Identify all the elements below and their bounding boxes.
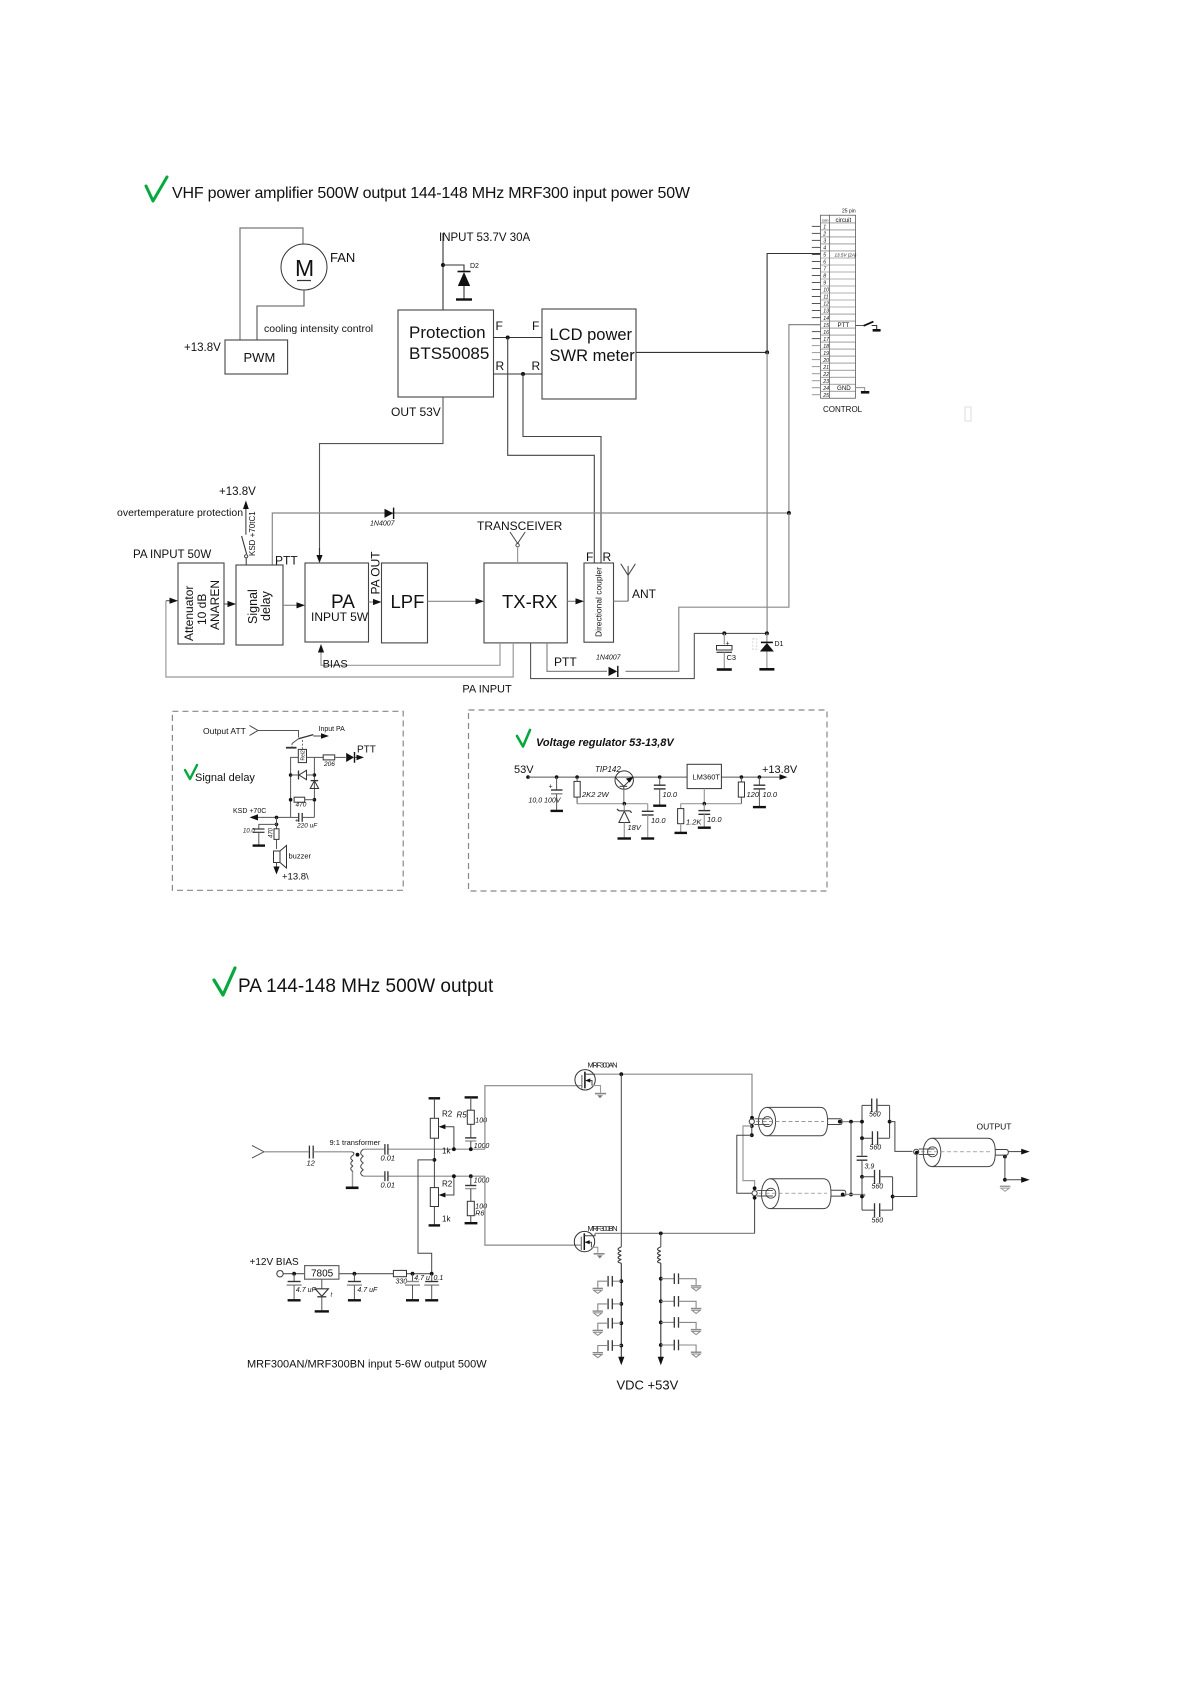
svg-text:Input PA: Input PA [319,726,346,733]
svg-text:delay: delay [259,590,273,621]
svg-text:M: M [295,255,314,281]
svg-text:con: con [822,218,828,223]
diode PTT out [346,752,364,763]
svg-text:CONTROL: CONTROL [823,405,863,414]
pin 25 row [821,390,856,392]
svg-text:+13.8\: +13.8\ [282,872,309,883]
svg-text:4.7 uF: 4.7 uF [357,1287,378,1294]
svg-text:R: R [603,550,612,564]
title checkmark [146,177,167,201]
svg-text:MRF300AN/MRF300BN input 5-6W: MRF300AN/MRF300BN input 5-6W output 500W [247,1359,487,1371]
resistor 120 [738,775,760,803]
pin 3 row [821,236,856,238]
svg-text:R2: R2 [442,1110,453,1119]
node KSD junction [275,816,279,820]
wire R to directional coupler [523,374,601,563]
node drain1 choke junction [619,1072,623,1076]
wire output braid down [1004,1155,1006,1182]
svg-text:R6: R6 [475,1211,484,1218]
svg-text:12: 12 [307,1159,316,1168]
buzzer speaker [273,846,311,875]
capacitor 10.0 output [753,775,778,807]
dashed box voltage regulator [469,710,828,891]
svg-text:1k: 1k [442,1147,451,1156]
pin 21 row [821,362,856,364]
capacitor 10.0 emitter [653,775,678,805]
pin 15 row [821,320,856,322]
ground output chevron [1000,1185,1010,1187]
svg-text:1k: 1k [442,1215,451,1224]
svg-text:FAN: FAN [330,250,355,265]
svg-text:SWR meter: SWR meter [550,347,636,365]
wire R [494,373,543,375]
svg-text:560: 560 [872,1184,884,1191]
signal delay box [236,565,283,645]
capacitor 0.01 bottom [381,1171,396,1189]
wire stub tie vertical [850,1122,852,1195]
svg-text:7805: 7805 [311,1268,334,1279]
wire main rail regulator [528,776,687,778]
pin 23 row [821,376,856,378]
capacitor C3 [717,633,737,669]
pin 11 row [821,292,856,294]
wire signal delay to PA [283,604,297,606]
svg-text:BTS50085: BTS50085 [409,344,489,363]
capacitor bypass L1 [593,1276,624,1294]
pin 22 row [821,369,856,371]
svg-text:D2: D2 [470,263,479,270]
capacitor 0.01 top [381,1144,396,1162]
coax transformer line 2 [752,1179,846,1209]
capacitor 12 [307,1146,316,1168]
pin 7 row [821,264,856,266]
node bridge bottom top-left [860,1175,864,1179]
svg-text:Attenuator: Attenuator [182,586,196,641]
svg-text:13.5V (2A): 13.5V (2A) [835,253,857,258]
wire coax1 to coax2 left black [737,1135,752,1193]
pin 19 row [821,348,856,350]
capacitor 10.0 adj [698,804,723,828]
node coax2 top junction [753,1186,757,1190]
wire F [494,337,543,339]
capacitor 4.7uF output [347,1274,378,1301]
svg-text:1N4007: 1N4007 [596,655,622,662]
svg-text:ANAREN: ANAREN [208,580,222,630]
node phase dot [356,1153,360,1157]
svg-text:D1: D1 [775,641,784,648]
wire junction up to pin5 [767,254,820,353]
svg-text:0.1: 0.1 [434,1275,444,1282]
transistor TIP142 [595,765,633,804]
capacitor bridge bottom 560 lower [862,1203,893,1224]
resistor 470 horizontal [289,797,316,808]
svg-text:KSD +70C: KSD +70C [233,808,266,815]
svg-text:PA INPUT: PA INPUT [462,684,512,696]
capacitor 220uF [291,813,319,830]
capacitor bridge top 560 upper [862,1099,890,1119]
stray faint mark right [965,407,971,421]
svg-text:120: 120 [747,790,760,799]
wire base rail [577,803,648,805]
svg-text:1.2K: 1.2K [686,818,702,827]
node R junction [521,372,525,376]
capacitor 10.0 base [641,804,666,839]
PA box [305,563,369,642]
svg-text:2K2 2W: 2K2 2W [581,790,610,799]
pin 1 row [821,222,856,224]
svg-text:buzzer: buzzer [289,852,312,861]
wire gate box left edge bottom [485,1176,581,1245]
capacitor 1000 bottom [452,1174,489,1201]
svg-text:10.0: 10.0 [707,815,722,824]
svg-text:470: 470 [269,827,275,838]
svg-text:TRANSCEIVER: TRANSCEIVER [477,519,563,533]
wire gate top line [363,1148,485,1150]
wire PTT lower net [547,643,607,672]
svg-text:LCD power: LCD power [550,326,633,344]
svg-text:10,0 100V: 10,0 100V [529,798,562,805]
wire coax1 to coax2 pin gray [743,1126,755,1188]
wire coax2 stub out [846,1195,865,1197]
svg-text:560: 560 [869,1112,881,1119]
capacitor 10.0 100V [529,775,564,811]
wire TX-RX to coupler [567,600,578,602]
switch PTT at connector [856,322,881,331]
wire bridge bottom sides [861,1177,863,1210]
node F junction [506,336,510,340]
svg-text:10.0: 10.0 [763,790,778,799]
arrow output bottom [1005,1179,1023,1181]
node bias tap junction [433,1158,437,1162]
capacitor bypass R2 [659,1296,701,1314]
svg-text:F: F [586,550,593,564]
wire +13.8V arrow up [245,507,247,535]
transistor MRF300BN Q2 [574,1231,604,1258]
potentiometer R2 bottom [429,1149,454,1225]
svg-text:R: R [496,359,505,373]
wire PTT main line [272,513,789,565]
capacitor 4.7u [405,1274,430,1301]
svg-text:330: 330 [396,1278,408,1285]
wire PA to LPF [369,601,375,603]
svg-text:206: 206 [323,761,335,768]
wire coupler to ANT [614,600,629,602]
wire bias feed to gates [418,1160,434,1274]
svg-text:INPUT 53.7V 30A: INPUT 53.7V 30A [439,232,531,244]
wire relay rails [291,757,299,817]
svg-text:PTT: PTT [357,745,376,756]
capacitor bypass L2 [593,1299,624,1317]
terminal bias input [277,1271,283,1277]
wire transformer primary to ground [352,1172,354,1187]
svg-text:BIAS: BIAS [323,659,348,671]
svg-text:Directional coupler: Directional coupler [594,567,604,637]
node PTT junction [787,511,791,515]
wire bridge bottom out [893,1154,917,1196]
svg-text:cooling intensity control: cooling intensity control [264,323,373,335]
svg-text:18V: 18V [628,823,642,832]
wire line B to C3 D1 [531,633,767,678]
wire fan top loop [240,228,303,340]
pin 13 row [821,306,856,308]
resistor 206 [314,755,345,768]
svg-text:10 dB: 10 dB [195,594,209,625]
wire cap12 to transformer [313,1151,351,1153]
svg-text:+13.8V: +13.8V [762,764,798,776]
svg-text:Signal: Signal [246,589,260,624]
svg-text:INPUT 5W: INPUT 5W [311,610,369,624]
antenna ANT [621,564,636,601]
transistor MRF300AN Q1 [575,1070,606,1099]
pin 16 row [821,327,856,329]
svg-text:KSD +70tC1: KSD +70tC1 [248,511,257,556]
capacitor 1000 top [465,1138,489,1150]
node D1 junction [765,631,769,635]
Protection BTS50085 box U1 [398,310,494,397]
resistor 470 vertical buzzer [269,827,280,849]
node buzzer junction [275,823,279,827]
node rail right diode row [313,773,317,777]
svg-text:R5: R5 [457,1111,468,1120]
pin 10 row [821,285,856,287]
svg-text:PA INPUT 50W: PA INPUT 50W [133,549,211,561]
diode D1 [753,633,784,669]
svg-text:9:1 transformer: 9:1 transformer [330,1138,381,1147]
wire fan bottom to PWM [257,290,304,340]
svg-text:10.0: 10.0 [243,829,255,835]
coax transformer line 1 [749,1107,842,1135]
svg-text:21: 21 [822,365,829,371]
svg-text:1000: 1000 [474,1143,490,1150]
pin 20 row [821,355,856,357]
svg-text:PWM: PWM [244,350,276,365]
wire bridge top sides [861,1105,863,1138]
capacitor bypass R1 [659,1273,701,1291]
potentiometer R2 top [429,1098,454,1155]
svg-text:+12V BIAS: +12V BIAS [250,1257,300,1268]
capacitor 0.1 [424,1274,443,1301]
resistor 1.2K [675,804,703,833]
PA title checkmark [214,968,235,995]
checkmark voltage regulator [517,730,530,747]
wire input to cap12 [264,1151,309,1153]
pin 4 row [821,243,856,245]
wire LM360T ground leg [703,789,705,804]
svg-text:VDC +53V: VDC +53V [617,1378,679,1393]
svg-text:1000: 1000 [474,1178,490,1185]
capacitor 10.0 buzzer [243,824,277,845]
svg-text:PA 144-148 MHz 500W output: PA 144-148 MHz 500W output [238,976,494,997]
attenuator box [178,563,224,644]
svg-text:PTT: PTT [554,655,577,669]
input connector PA [252,1146,264,1159]
checkmark signal delay [185,765,197,779]
svg-text:OUTPUT: OUTPUT [977,1122,1012,1132]
svg-text:overtemperature protection: overtemperature protection [117,507,243,519]
pin 14 row [821,313,856,315]
wire F to directional coupler [508,338,595,564]
svg-text:MRF300BN: MRF300BN [588,1224,618,1233]
arrow into PA top [316,555,322,563]
svg-text:TX-RX: TX-RX [502,591,558,612]
svg-text:LM360T: LM360T [693,773,721,782]
svg-text:+: + [726,641,730,648]
capacitor bypass L3 [593,1318,624,1336]
wire bridge top out [890,1122,913,1152]
wire PTT pin15 to net [789,325,821,513]
svg-text:560: 560 [872,1218,884,1225]
diode bias 7805 [315,1279,333,1311]
wire coax1 stub out [842,1121,861,1123]
wire output att to switch [258,731,299,738]
svg-text:R: R [532,359,541,373]
svg-text:+13.8V: +13.8V [184,342,221,354]
svg-text:MRF300AN: MRF300AN [588,1061,618,1070]
diode 1N4007 PTT line [370,508,396,528]
transformer T1 primary [351,1152,354,1172]
svg-text:53V: 53V [514,764,534,776]
PWM box [225,340,288,374]
wire PA INPUT feedback [166,601,513,677]
capacitor bypass L4 [593,1340,624,1358]
wire choke L2 down [660,1263,662,1357]
regulator LM360T box [687,764,721,788]
node junction D2 tap [441,263,445,267]
wire LCD right to connector/D1 [636,351,767,353]
diode zener right rail [310,781,318,789]
wire KSD arrow [256,816,291,818]
wire LPF to TX-RX [428,600,478,602]
svg-text:10.0: 10.0 [663,790,678,799]
node drain2 choke junction [659,1232,663,1236]
svg-text:25: 25 [822,393,829,399]
resistor R5 [457,1097,488,1137]
pin 2 row [821,229,856,231]
pin 17 row [821,334,856,336]
svg-text:GND: GND [837,385,851,392]
svg-text:PTT: PTT [838,322,850,329]
wire bias rail [283,1273,432,1275]
node zener top [623,802,627,806]
directional coupler box [584,563,614,642]
ground GND pin24 [856,388,870,393]
svg-text:Signal delay: Signal delay [195,772,255,784]
wire switch to relay dashed [301,740,303,749]
pin 12 row [821,299,856,301]
svg-text:VHF power amplifier 500W outpu: VHF power amplifier 500W output 144-148 … [172,185,691,202]
svg-text:10.0: 10.0 [651,816,666,825]
svg-text:25 pin: 25 pin [842,209,856,215]
svg-text:PA OUT: PA OUT [369,551,383,595]
svg-text:OUT 53V: OUT 53V [391,405,441,419]
LCD power SWR meter box U2 [542,309,636,399]
LPF box [382,563,428,643]
svg-text:TIP142: TIP142 [595,765,621,774]
svg-text:ANT: ANT [632,587,657,601]
arrow input pa [313,735,321,737]
node coax1 feed junction [750,1116,754,1120]
wire gate bottom line [363,1175,485,1177]
wire junction down to D1 [766,352,768,633]
svg-text:F: F [496,319,503,333]
ground transformer [346,1187,359,1190]
zener 18V [617,804,642,839]
wire gate box left edge top [485,1086,582,1150]
choke L2 [660,1233,662,1247]
svg-text:F: F [532,319,539,333]
diode antiparallel [291,770,315,779]
node coax1 lower junctions [751,1124,753,1135]
node output pin junction [915,1151,919,1155]
wire OUT 53V to PA [320,397,444,557]
svg-text:470: 470 [296,802,307,809]
antenna transceiver [510,532,525,563]
svg-text:220 uF: 220 uF [296,823,318,830]
motor FAN M1 [281,244,327,290]
svg-text:1N4007: 1N4007 [370,521,396,528]
pin 18 row [821,341,856,343]
connector output att [250,726,259,736]
resistor R6 [465,1201,487,1223]
capacitor bridge top 560 lower [862,1131,890,1151]
coax output line [914,1138,1009,1166]
diode D2 [456,263,479,300]
node rail left diode row [289,773,293,777]
svg-text:3,9: 3,9 [865,1164,875,1171]
switch relay contact [286,735,313,748]
wire gnd rail regulator [681,803,742,805]
wire into attenuator with arrow [166,600,170,602]
wire attenuator to signal delay [224,603,229,605]
TX-RX box [484,563,567,643]
svg-text:Protection: Protection [409,323,486,342]
pin 5 row [821,250,856,252]
capacitor bypass R4 [659,1340,701,1358]
svg-text:560: 560 [870,1145,882,1152]
capacitor 4.7uF input [287,1274,317,1301]
svg-text:Output ATT: Output ATT [203,726,246,736]
pin 24 row [821,383,856,385]
svg-text:LPF: LPF [391,591,425,612]
choke L1 [620,1074,622,1247]
switch KSD thermal [242,536,247,554]
wire to D2 [443,265,464,271]
node output gnd junction [1003,1155,1007,1159]
wire drain rail top [595,1074,752,1118]
pin 6 row [821,257,856,259]
arrow output top [1008,1151,1022,1153]
svg-text:R2: R2 [442,1180,453,1189]
node lcd-wire junction [765,350,769,354]
resistor 330 [393,1270,407,1285]
node 53V start [526,775,530,779]
wire choke L1 down [620,1263,622,1357]
capacitor 3.9 [857,1138,875,1177]
wire input 53V down to protection [442,233,444,310]
wire BIAS [321,643,500,665]
svg-text:C3: C3 [727,653,737,662]
node C3 junction [722,631,726,635]
capacitor bridge bottom 560 upper [862,1170,893,1191]
svg-text:0.01: 0.01 [381,1181,396,1190]
wire drain rail bottom [595,1232,755,1234]
svg-text:0.01: 0.01 [381,1154,396,1163]
dashed box signal delay [172,711,403,890]
resistor 2K2 2W [574,775,610,803]
diode 1N4007 lower [596,655,622,678]
svg-text:Voltage regulator 53-13,8V: Voltage regulator 53-13,8V [536,737,675,749]
svg-text:Rel2: Rel2 [301,750,307,761]
